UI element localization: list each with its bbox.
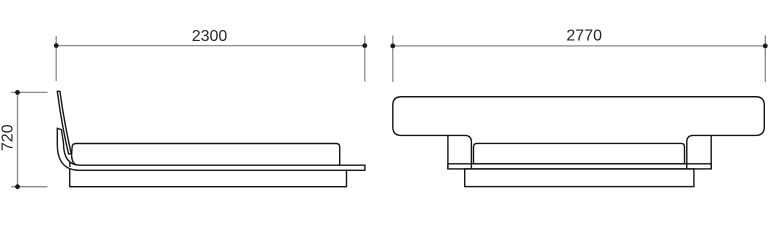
dimension 720: dimension line xyxy=(17,92,19,186)
dimension 2770: right end dot xyxy=(763,44,768,49)
front view: base box xyxy=(465,169,694,187)
dimension 720: top end dot xyxy=(15,90,20,95)
front view: side rail band xyxy=(448,164,711,169)
side view: base box front corner edge xyxy=(69,162,71,167)
dimension 2300: left extension line xyxy=(55,36,57,81)
dimension 2300: left end dot xyxy=(54,43,59,48)
front view: mattress xyxy=(474,143,685,163)
dimension 2300: right extension line xyxy=(364,36,366,82)
side view: mattress xyxy=(72,144,340,166)
svg-text:2300: 2300 xyxy=(192,28,228,45)
front view: right wing outer edge xyxy=(710,135,712,168)
side view: curved frame rail xyxy=(57,128,365,170)
dimension 2300: dimension line xyxy=(56,45,365,47)
dimension 2770: dimension line xyxy=(393,45,766,47)
front view: left wing outer edge xyxy=(447,135,449,168)
dimension 720: bottom tick line xyxy=(11,186,47,188)
dimension 2770: left end dot xyxy=(390,44,395,49)
svg-text:720: 720 xyxy=(0,124,17,151)
dimension 2300: right end dot xyxy=(362,43,367,48)
dimension 2770: right extension line xyxy=(764,36,766,83)
front view: headboard outline with wings xyxy=(393,97,765,169)
svg-text:2770: 2770 xyxy=(566,27,602,44)
dimension 720: top tick line xyxy=(11,91,47,93)
dimension 720: bottom end dot xyxy=(15,184,20,189)
dimension 2770: left extension line xyxy=(392,36,394,83)
side view: headboard plank xyxy=(57,91,71,154)
side view: base box xyxy=(70,166,347,187)
